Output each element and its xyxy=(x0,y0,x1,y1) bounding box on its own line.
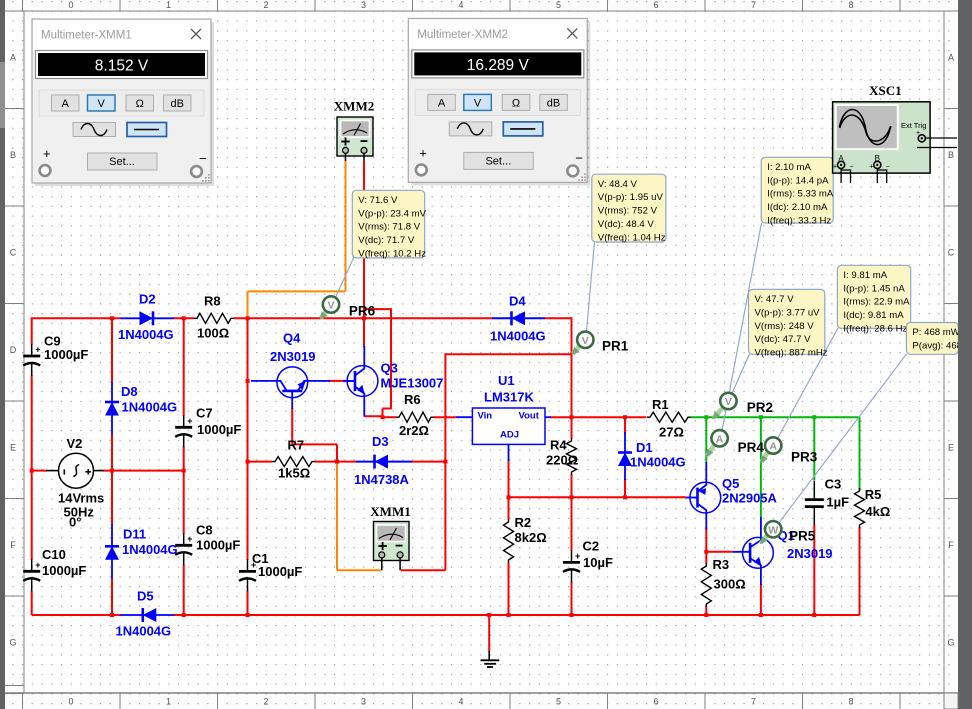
wire: column x=247.5 (Q4 branch / C1) xyxy=(247,318,249,560)
svg-text:0°: 0° xyxy=(69,515,81,530)
svg-text:I(rms): 5.33 mA: I(rms): 5.33 mA xyxy=(767,189,834,200)
wire: ADJ drop x=508.5 xyxy=(508,460,510,497)
svg-text:dB: dB xyxy=(170,98,183,110)
U1 pins xyxy=(456,416,472,418)
svg-text:27Ω: 27Ω xyxy=(659,425,684,440)
transistor Q3 (MJE13007) xyxy=(347,366,378,397)
dialog window Multimeter-XMM1 xyxy=(35,22,214,186)
svg-text:LM317K: LM317K xyxy=(484,390,534,405)
svg-text:C10: C10 xyxy=(42,547,66,562)
resistor R7 xyxy=(272,457,315,467)
svg-text:I(p-p): 1.45 nA: I(p-p): 1.45 nA xyxy=(843,283,905,294)
diode D1 xyxy=(624,432,626,480)
svg-text:V: 48.4 V: V: 48.4 V xyxy=(598,179,638,190)
probe PR3 xyxy=(762,452,769,462)
svg-text:2N3019: 2N3019 xyxy=(270,349,316,364)
ground xyxy=(488,651,490,660)
svg-text:1000µF: 1000µF xyxy=(44,347,88,362)
svg-text:V(rms): 248 V: V(rms): 248 V xyxy=(755,321,815,332)
svg-text:V: 71.6 V: V: 71.6 V xyxy=(358,195,398,206)
svg-text:7: 7 xyxy=(751,697,756,707)
svg-text:D11: D11 xyxy=(123,527,146,542)
svg-text:V(freq): 1.04 Hz: V(freq): 1.04 Hz xyxy=(598,232,666,243)
wire: C3 bottom red xyxy=(813,525,815,616)
svg-text:2: 2 xyxy=(263,0,268,10)
wire: mid rail y=470.6 through V2 xyxy=(32,470,47,472)
wire: ADJ line y=497.3 xyxy=(509,496,687,498)
wire: Vout line red xyxy=(550,416,647,418)
svg-text:+: + xyxy=(187,416,192,426)
svg-text:I(rms): 22.9 mA: I(rms): 22.9 mA xyxy=(843,297,910,308)
svg-text:D8: D8 xyxy=(121,384,138,399)
svg-text:4kΩ: 4kΩ xyxy=(865,504,890,519)
svg-text:4: 4 xyxy=(458,697,463,707)
transistor Q4 (2N3019, rotated, base down) xyxy=(277,367,308,398)
svg-text:8: 8 xyxy=(848,697,853,707)
svg-text:R6: R6 xyxy=(404,392,421,407)
svg-text:V(rms): 71.8 V: V(rms): 71.8 V xyxy=(358,222,420,233)
svg-text:P: 468 mW: P: 468 mW xyxy=(912,327,960,338)
wire: top rail D4..corner xyxy=(545,317,573,319)
svg-text:10µF: 10µF xyxy=(583,555,613,570)
svg-text:Q4: Q4 xyxy=(283,330,301,345)
svg-text:Set...: Set... xyxy=(485,155,511,167)
capacitor C3 xyxy=(813,481,815,500)
wire: top rail D2..R8 xyxy=(174,317,195,319)
svg-text:V(freq): 887 mHz: V(freq): 887 mHz xyxy=(755,348,828,359)
svg-text:V(p-p): 1.95 uV: V(p-p): 1.95 uV xyxy=(598,192,664,203)
svg-text:U1: U1 xyxy=(498,373,515,388)
svg-text:1N4738A: 1N4738A xyxy=(354,472,410,487)
wire: R3 column xyxy=(705,552,707,564)
svg-text:F: F xyxy=(10,540,16,550)
wire: R6 line red segment xyxy=(383,416,397,418)
svg-text:V: 47.7 V: V: 47.7 V xyxy=(755,294,795,305)
svg-text:+: + xyxy=(43,146,51,161)
svg-text:R5: R5 xyxy=(865,487,882,502)
svg-text:5: 5 xyxy=(556,697,561,707)
wire: green drop Q1 collector x=760.9 xyxy=(760,417,762,517)
resistor R4 xyxy=(567,438,577,475)
svg-text:14Vrms: 14Vrms xyxy=(58,491,104,506)
svg-text:6: 6 xyxy=(653,0,658,10)
wire: PR6 branch jog xyxy=(383,408,392,410)
svg-text:V(p-p): 3.77 uV: V(p-p): 3.77 uV xyxy=(755,307,821,318)
svg-text:D: D xyxy=(10,345,17,355)
svg-text:1000µF: 1000µF xyxy=(258,564,302,579)
svg-text:1k5Ω: 1k5Ω xyxy=(278,466,310,481)
wire: Q5 collector down xyxy=(705,528,707,552)
svg-text:PR4: PR4 xyxy=(738,440,765,455)
wire: Q1 emitter down xyxy=(760,584,762,615)
probe PR2 xyxy=(714,408,724,419)
right ruler column xyxy=(943,11,945,693)
svg-text:+: + xyxy=(419,145,427,160)
diode D8 xyxy=(111,382,113,435)
svg-text:2r2Ω: 2r2Ω xyxy=(399,423,429,438)
svg-text:I(dc): 2.10 mA: I(dc): 2.10 mA xyxy=(767,202,828,213)
svg-text:R8: R8 xyxy=(204,294,221,309)
svg-text:C2: C2 xyxy=(583,539,600,554)
svg-text:1N4004G: 1N4004G xyxy=(122,542,178,557)
right dark strip overlay xyxy=(958,11,972,691)
svg-text:4: 4 xyxy=(458,0,463,10)
probe readout PR3 xyxy=(837,265,910,328)
svg-text:+: + xyxy=(187,534,192,544)
wire: bottom rail y=615 xyxy=(32,614,121,616)
svg-text:220Ω: 220Ω xyxy=(546,453,578,468)
capacitor C7 xyxy=(183,415,185,427)
svg-text:F: F xyxy=(948,540,954,550)
resistor R3 xyxy=(701,563,711,607)
svg-text:0: 0 xyxy=(68,697,73,707)
svg-text:1N4004G: 1N4004G xyxy=(630,455,686,470)
svg-text:2N2905A: 2N2905A xyxy=(722,491,778,506)
capacitor C9 xyxy=(31,344,33,356)
capacitor C2 xyxy=(571,550,573,562)
svg-text:1000µF: 1000µF xyxy=(196,538,240,553)
probe readout PR6 xyxy=(352,190,424,258)
capacitor C8 xyxy=(183,533,185,545)
svg-text:2: 2 xyxy=(263,697,268,707)
wire: left vertical rail x=31.7 xyxy=(31,318,33,345)
svg-text:dB: dB xyxy=(547,97,560,109)
svg-text:C: C xyxy=(10,248,17,258)
svg-text:V(dc): 71.7 V: V(dc): 71.7 V xyxy=(358,235,415,246)
wire: Q4 base drop and jog to R7 line xyxy=(291,408,293,444)
svg-text:+: + xyxy=(35,345,40,355)
svg-text:Ω: Ω xyxy=(136,98,144,110)
svg-text:5: 5 xyxy=(556,0,561,10)
svg-text:16.289 V: 16.289 V xyxy=(467,57,530,74)
svg-text:E: E xyxy=(948,443,954,453)
resistor R8 xyxy=(194,313,234,323)
probe PR1 xyxy=(573,346,581,354)
op-amp U1 LM317K box xyxy=(472,408,545,444)
svg-text:R2: R2 xyxy=(515,515,532,530)
svg-text:V(rms): 752 V: V(rms): 752 V xyxy=(598,206,658,217)
wire: XMM2 minus red drop x=364 xyxy=(363,161,365,347)
svg-text:300Ω: 300Ω xyxy=(714,577,746,592)
probe readout PR4 xyxy=(761,157,833,223)
wire: green drop C3 x=814.3 xyxy=(813,417,815,480)
junction dots xyxy=(110,316,114,320)
svg-text:8k2Ω: 8k2Ω xyxy=(515,530,547,545)
wire: column x=183.7 (C7/C8) xyxy=(183,318,185,416)
svg-text:R4: R4 xyxy=(550,438,567,453)
top ruler band xyxy=(5,0,958,11)
probe readout PR1 xyxy=(592,174,666,242)
wire: orange XMM1 plus xyxy=(336,462,338,571)
svg-text:6: 6 xyxy=(653,697,658,707)
svg-text:I: 9.81 mA: I: 9.81 mA xyxy=(843,270,887,281)
svg-text:0: 0 xyxy=(68,0,73,10)
svg-text:2N3019: 2N3019 xyxy=(787,546,833,561)
svg-text:I(freq): 33.3 Hz: I(freq): 33.3 Hz xyxy=(767,216,831,227)
capacitor C10 xyxy=(31,559,33,571)
wire: vertical x=445.4 (354..462) xyxy=(444,353,446,461)
svg-text:G: G xyxy=(9,638,16,648)
svg-text:A: A xyxy=(769,441,777,453)
diode D11 xyxy=(111,524,113,579)
svg-text:I(dc): 9.81 mA: I(dc): 9.81 mA xyxy=(843,310,904,321)
svg-text:Vout: Vout xyxy=(519,410,540,421)
svg-text:Ext Trig: Ext Trig xyxy=(901,121,926,130)
wire: ground stub x=489.2 xyxy=(488,615,490,652)
svg-text:1µF: 1µF xyxy=(826,495,849,510)
svg-text:Multimeter-XMM1: Multimeter-XMM1 xyxy=(41,30,132,42)
probe readout PR2 xyxy=(749,289,825,354)
svg-text:1N4004G: 1N4004G xyxy=(490,329,546,344)
svg-text:Multimeter-XMM2: Multimeter-XMM2 xyxy=(417,29,508,41)
leader lines xyxy=(332,257,354,305)
svg-text:MJE13007: MJE13007 xyxy=(381,376,444,391)
right dark border strip xyxy=(958,0,972,709)
wire: PR6 branch horizontal y=309.1 xyxy=(364,308,391,310)
svg-text:XSC1: XSC1 xyxy=(869,83,902,98)
probe PR5 xyxy=(761,535,768,543)
svg-text:E: E xyxy=(10,443,16,453)
svg-text:V: V xyxy=(474,97,482,109)
transistor Q5 (2N2905A PNP) xyxy=(690,482,721,513)
svg-text:Ω: Ω xyxy=(512,97,520,109)
wire: green output rail y=417.2 xyxy=(691,416,860,418)
svg-text:V(p-p): 23.4 mV: V(p-p): 23.4 mV xyxy=(358,208,426,219)
wire: top rail y=318.3 (left of D2) xyxy=(31,317,121,319)
svg-text:Vin: Vin xyxy=(478,410,493,421)
svg-text:1: 1 xyxy=(166,0,171,10)
svg-text:+: + xyxy=(575,551,580,561)
svg-text:I: 2.10 mA: I: 2.10 mA xyxy=(767,162,811,173)
dialog window Multimeter-XMM2 xyxy=(411,21,590,185)
svg-text:V: V xyxy=(725,396,732,408)
wire: R5 bottom red xyxy=(859,528,861,616)
svg-text:XMM2: XMM2 xyxy=(334,99,374,114)
svg-text:ADJ: ADJ xyxy=(500,430,519,441)
svg-text:Set...: Set... xyxy=(109,156,135,168)
svg-text:R3: R3 xyxy=(713,557,730,572)
svg-text:8.152 V: 8.152 V xyxy=(95,58,149,75)
svg-text:D5: D5 xyxy=(137,589,154,604)
wire: green drop R5 x=859.5 xyxy=(859,416,861,490)
svg-text:D1: D1 xyxy=(636,440,653,455)
svg-text:8: 8 xyxy=(848,0,853,10)
svg-text:W: W xyxy=(768,524,778,536)
wire: R2 column x=508.5 xyxy=(508,497,510,519)
svg-text:C7: C7 xyxy=(196,406,213,421)
svg-text:V2: V2 xyxy=(67,436,83,451)
diode D2 xyxy=(121,317,175,319)
svg-text:1N4004G: 1N4004G xyxy=(116,624,172,639)
svg-text:V(dc): 47.7 V: V(dc): 47.7 V xyxy=(755,334,812,345)
svg-text:1N4004G: 1N4004G xyxy=(118,327,174,342)
probe PR6 xyxy=(321,311,327,318)
resistor R5 xyxy=(855,488,865,528)
svg-text:V: V xyxy=(98,98,106,110)
resistor R6 xyxy=(396,412,434,422)
svg-text:XMM1: XMM1 xyxy=(370,504,410,519)
bottom-left ruler corner box xyxy=(5,685,24,687)
svg-text:R7: R7 xyxy=(288,438,305,453)
svg-text:PR2: PR2 xyxy=(747,400,773,415)
transistor Q1 (2N3019) xyxy=(743,537,774,568)
svg-text:A: A xyxy=(10,53,16,63)
resistor R2 xyxy=(504,519,514,563)
svg-text:+: + xyxy=(869,164,873,171)
svg-text:+: + xyxy=(35,560,40,570)
svg-text:V(freq): 10.2 Hz: V(freq): 10.2 Hz xyxy=(358,249,426,260)
left scrollbar thumb xyxy=(0,62,5,128)
wire: D1 column x=625 xyxy=(624,417,626,434)
capacitor C1 xyxy=(247,559,249,571)
wire: column x=112 (D8/D11) xyxy=(111,318,113,383)
svg-text:3: 3 xyxy=(361,697,366,707)
wire: orange XMM2 plus xyxy=(345,160,347,291)
svg-text:C3: C3 xyxy=(825,477,842,492)
svg-text:I(freq): 28.6 Hz: I(freq): 28.6 Hz xyxy=(843,324,907,335)
wire: horizontal y=354.2 branch xyxy=(445,353,571,355)
svg-text:D2: D2 xyxy=(139,292,156,307)
svg-text:Q5: Q5 xyxy=(722,476,739,491)
svg-text:C8: C8 xyxy=(196,523,213,538)
svg-text:1: 1 xyxy=(166,697,171,707)
bottom ruler band xyxy=(5,693,958,709)
wire: R7/D3 line y=461.6 xyxy=(248,461,273,463)
wire: green drop Q5 emitter x=706.3 xyxy=(705,417,707,462)
svg-text:A: A xyxy=(948,53,954,63)
resistor R1 xyxy=(647,412,691,422)
svg-text:PR6: PR6 xyxy=(349,304,376,319)
diode D3 xyxy=(356,461,412,463)
svg-text:100Ω: 100Ω xyxy=(197,326,229,341)
svg-text:A: A xyxy=(438,97,446,109)
svg-text:R1: R1 xyxy=(652,397,669,412)
svg-text:−: − xyxy=(575,150,583,165)
bottom-right corner box xyxy=(944,693,958,709)
probe PR4 xyxy=(707,445,715,456)
svg-text:B: B xyxy=(948,150,954,160)
left dark border strip xyxy=(0,0,5,709)
diode D4 xyxy=(492,317,545,319)
svg-text:D4: D4 xyxy=(509,294,526,309)
probe readout PR5 xyxy=(906,323,958,355)
wire: vertical x=571.5 D4 corner down to Vout line xyxy=(571,317,573,417)
svg-text:V(dc): 48.4 V: V(dc): 48.4 V xyxy=(598,219,655,230)
svg-text:B: B xyxy=(10,150,16,160)
wire: XMM1 minus red xyxy=(401,569,445,571)
svg-text:3: 3 xyxy=(361,0,366,10)
wire: R4/C2 column x=571.5 xyxy=(571,417,573,438)
svg-text:Q3: Q3 xyxy=(381,361,398,376)
svg-text:I(p-p): 14.4 pA: I(p-p): 14.4 pA xyxy=(767,175,829,186)
wire: PR6 branch vertical x=391 xyxy=(390,308,392,408)
wire: Q4 emitter to Q3 base xyxy=(328,380,345,382)
wire: Q3 emitter to R6 junction xyxy=(365,415,383,417)
diode D5 xyxy=(121,614,175,616)
svg-text:V: V xyxy=(582,335,589,347)
svg-text:PR5: PR5 xyxy=(789,529,816,544)
svg-text:PR1: PR1 xyxy=(602,339,629,354)
wire: top rail R8..D4 xyxy=(234,317,493,319)
svg-text:G: G xyxy=(947,638,954,648)
svg-text:+: + xyxy=(916,130,920,137)
svg-text:PR3: PR3 xyxy=(791,450,818,465)
svg-text:−: − xyxy=(199,151,207,166)
AC source V2 xyxy=(46,470,59,472)
svg-text:D3: D3 xyxy=(372,434,389,449)
svg-text:1000µF: 1000µF xyxy=(197,422,241,437)
svg-text:+: + xyxy=(833,164,837,171)
svg-text:1000µF: 1000µF xyxy=(42,563,86,578)
wire: Q5 collector to Q1 base xyxy=(706,551,733,553)
svg-text:C: C xyxy=(948,248,955,258)
left ruler column xyxy=(23,11,25,693)
svg-text:1N4004G: 1N4004G xyxy=(122,400,178,415)
svg-text:A: A xyxy=(62,98,70,110)
svg-text:A: A xyxy=(716,433,724,445)
svg-text:7: 7 xyxy=(751,0,756,10)
svg-text:V: V xyxy=(327,300,334,312)
